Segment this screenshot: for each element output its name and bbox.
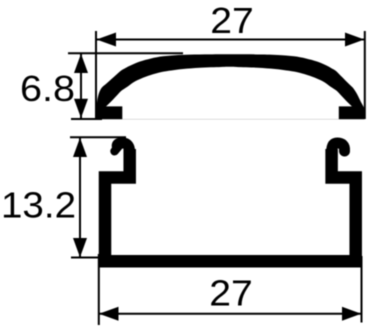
- extension line, lid top (6.8): [68, 52, 183, 54]
- dimension line, bottom width 27: [99, 313, 361, 315]
- left hook cap: [117, 143, 129, 153]
- extension line, bottom-left: [98, 254, 100, 325]
- arrowhead, top-right: [345, 33, 364, 47]
- lid profile (curved cover cross-section, outer dome with end feet): [97, 54, 365, 119]
- extension line, channel bottom (13.2): [71, 257, 102, 259]
- base channel profile (U-shaped body: side walls and bottom): [105, 149, 356, 261]
- arrowhead, 6.8 down: [74, 99, 88, 118]
- arrowhead, 13.2 up: [73, 138, 87, 157]
- extension line, lid bottom (6.8): [71, 118, 102, 120]
- svg-text:13.2: 13.2: [1, 185, 76, 226]
- svg-text:27: 27: [210, 0, 254, 41]
- left hook nose tip: [115, 145, 120, 151]
- arrowhead, top-left: [97, 33, 117, 47]
- arrowhead, bottom-right: [342, 307, 361, 321]
- arrowhead, bottom-left: [99, 307, 119, 321]
- dimension line, channel height 13.2: [79, 138, 81, 257]
- dimension line, top width 27: [97, 39, 365, 41]
- right hook cap: [332, 143, 345, 153]
- dimension line, lid height 6.8: [80, 53, 82, 118]
- svg-text:27: 27: [209, 273, 253, 314]
- arrowhead, 6.8 up: [74, 54, 88, 73]
- arrowhead, 13.2 down: [73, 238, 87, 257]
- extension line, top-right: [364, 31, 366, 119]
- lid inner cut (white mouth under lid): [106, 67, 352, 120]
- svg-text:6.8: 6.8: [20, 68, 75, 109]
- extension line, top-left: [95, 31, 97, 118]
- extension line, channel top (13.2): [70, 136, 126, 138]
- extension line, bottom-right: [361, 256, 363, 323]
